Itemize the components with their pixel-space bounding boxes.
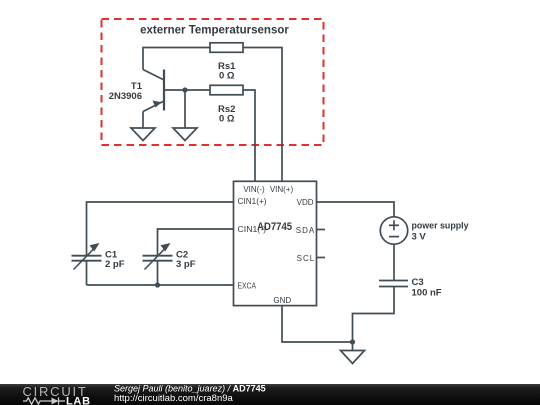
footer bar [0,384,540,405]
svg-text:CIN1(-): CIN1(-) [238,225,267,234]
capacitor C1 (variable, 2 pF) [72,243,102,270]
svg-text:SCL: SCL [297,254,316,263]
node: C2/EXCA junction [155,282,160,287]
power supply V1 (3 V) [380,217,407,244]
svg-text:0 Ω: 0 Ω [219,114,235,125]
svg-text:2N3906: 2N3906 [109,91,142,102]
ground (base of T1) [173,128,197,141]
wire: power supply bottom to C3 top [393,244,395,280]
ground (emitter of T1) [131,128,155,141]
svg-text:GND: GND [273,296,291,305]
wire: transistor collector to Rs1 left [143,48,210,70]
transistor Q1 / T1 2N3906 (PNP) [143,70,164,129]
svg-text:externer Temperatursensor: externer Temperatursensor [140,25,289,37]
node: ground junction [350,339,355,344]
capacitor C3 (100 nF) [379,281,408,287]
svg-text:0 Ω: 0 Ω [219,71,235,82]
resistor Rs2 [210,85,243,95]
wire: C3 bottom to ground junction [353,287,395,343]
svg-text:VIN(-): VIN(-) [243,185,265,194]
op-amp U1 AD7745 IC body [234,181,317,305]
svg-text:VDD: VDD [297,198,314,207]
dashed enclosure box (externer Temperatursensor) [102,19,324,145]
wire: Rs2 right down to VIN(-) [243,90,255,181]
svg-text:VIN(+): VIN(+) [270,185,294,194]
svg-text:Sergej Pauli (benito_juarez) /: Sergej Pauli (benito_juarez) / AD7745 [114,383,266,393]
wire: CIN1(+) to C1 top [87,202,234,256]
svg-text:CIN1(+): CIN1(+) [238,197,267,206]
node: base junction [182,87,187,92]
svg-text:3 V: 3 V [412,232,427,243]
svg-text:3 pF: 3 pF [176,259,196,270]
wire: GND pin to ground junction [282,306,353,343]
ground (main) [341,351,365,364]
wire: base of T1 to Rs2 left [165,89,210,91]
svg-text:EXCA: EXCA [238,281,257,290]
wire: C2 bottom down to EXCA rail [157,261,159,285]
svg-text:LAB: LAB [66,395,91,405]
svg-text:SDA: SDA [296,226,315,235]
pin stub SCL [317,257,326,259]
svg-text:C3: C3 [412,277,424,288]
svg-text:power supply: power supply [412,221,470,232]
svg-text:http://circuitlab.com/cra8n9a: http://circuitlab.com/cra8n9a [114,393,234,404]
capacitor C2 (variable, 3 pF) [143,243,173,270]
wire: Rs1 right down to VIN(+) [243,48,282,182]
wire: C1 bottom down to EXCA rail [86,261,88,285]
wire: CIN1(-) to C2 top [158,229,234,256]
wire: EXCA rail [87,284,234,286]
CircuitLab logo resistor+diode glyph [23,397,65,404]
svg-text:100 nF: 100 nF [412,288,442,299]
svg-text:2 pF: 2 pF [105,259,125,270]
resistor Rs1 [210,43,243,53]
wire: junction down to ground [184,90,186,128]
wire: junction stub to ground [352,342,354,351]
wire: VDD to power supply top [317,202,395,217]
pin stub SDA [317,229,326,231]
